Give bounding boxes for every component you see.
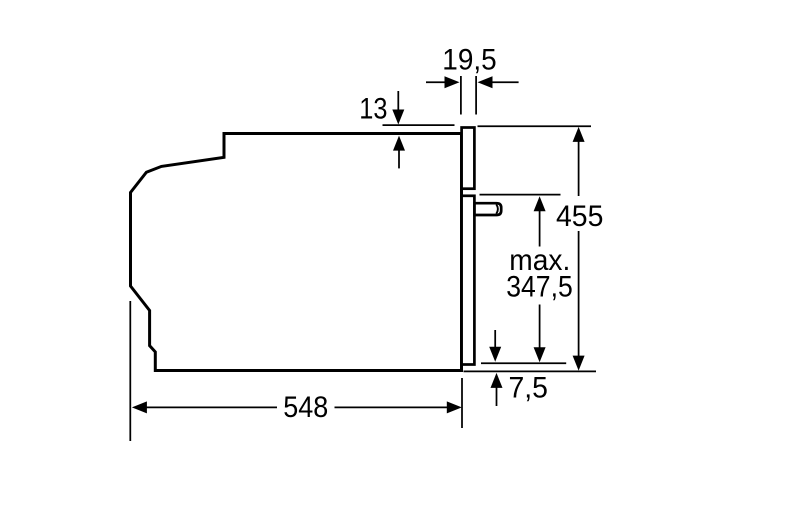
floor extension line	[464, 370, 597, 372]
dimension 548: right arrow (right-pointing)	[447, 401, 462, 413]
trim bottom extension line (7,5 upper)	[481, 362, 566, 364]
dimension 19,5: right arrow (left-pointing)	[491, 81, 519, 83]
dimension 19,5: extension lines	[460, 76, 462, 115]
knob end arc	[496, 204, 498, 213]
dimension 455: top extension line	[478, 125, 592, 127]
oven body outline	[131, 134, 462, 371]
dimension 7,5: lower arrow (up)	[496, 387, 498, 406]
dimension 548: left extension line	[129, 301, 131, 441]
dimension 13: lower arrow (up)	[398, 150, 400, 168]
dimension 548: left arrow (left-pointing)	[132, 401, 147, 413]
dimension max 347,5: line segments	[539, 210, 541, 247]
dimension 455: line segments	[578, 140, 580, 196]
front trim upper section	[462, 128, 475, 189]
dimension 455: top arrow (up)	[573, 127, 585, 142]
svg-text:19,5: 19,5	[442, 44, 496, 77]
front trim lower section	[462, 196, 475, 365]
dimension max 347,5: top arrow (up)	[534, 196, 546, 211]
svg-text:548: 548	[283, 391, 328, 424]
dimension 7,5: upper arrow (down)	[494, 330, 496, 348]
dimension 13: extension line	[383, 124, 455, 126]
dimension max 347,5: bottom arrow (down)	[534, 347, 546, 362]
dimension max 347,5: top extension line	[480, 194, 561, 196]
svg-text:455: 455	[556, 200, 603, 233]
dimension 455: bottom arrow (down)	[573, 356, 585, 371]
svg-text:347,5: 347,5	[506, 271, 573, 304]
knob	[475, 203, 502, 215]
dimension 13: upper arrow (down)	[397, 91, 399, 111]
dimension 548: right extension line	[461, 378, 463, 428]
dimension 548: line segments	[146, 406, 277, 408]
svg-text:13: 13	[359, 92, 387, 125]
dimension 19,5: left arrow (right-pointing)	[426, 81, 446, 83]
svg-text:7,5: 7,5	[508, 371, 548, 404]
